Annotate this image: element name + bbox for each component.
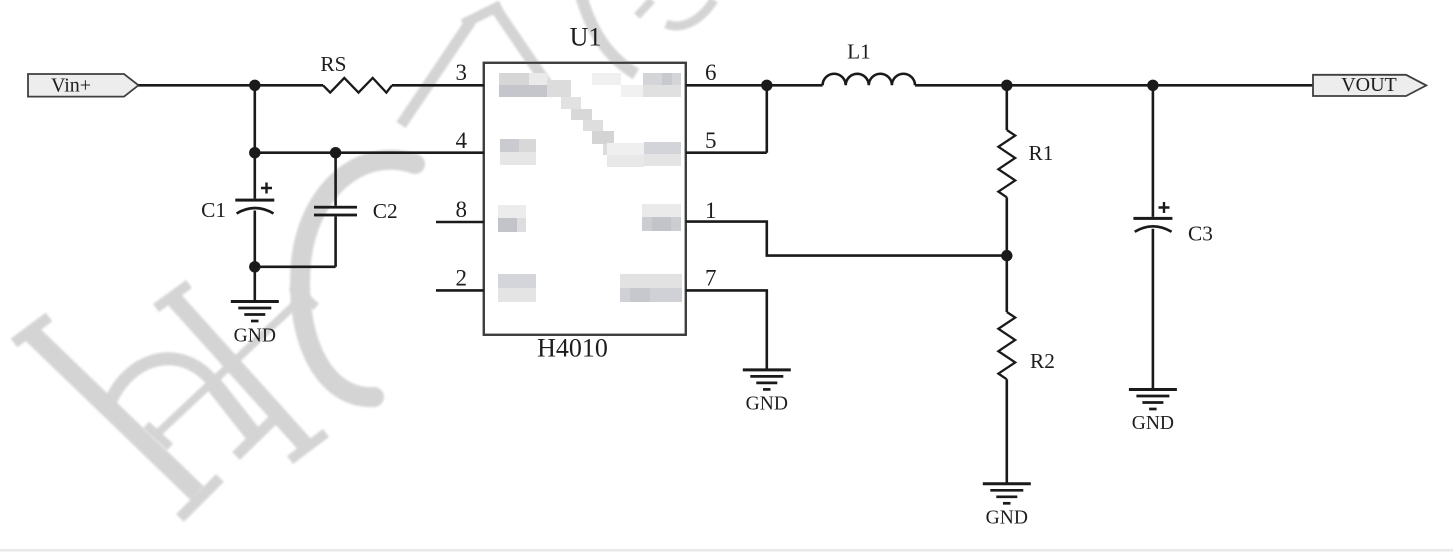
op-amp U1 border redraw (484, 63, 686, 335)
svg-text:GND: GND (986, 507, 1028, 528)
svg-text:U1: U1 (570, 23, 602, 52)
wire RS to pin3 (392, 84, 484, 87)
pin 1 wire (686, 222, 1007, 256)
U1 pin 1 name blur (642, 204, 681, 231)
svg-text:5: 5 (705, 128, 717, 153)
svg-text:C3: C3 (1188, 222, 1213, 246)
svg-text:C1: C1 (201, 198, 226, 222)
svg-text:3: 3 (456, 60, 468, 85)
U1 pin 2 name blur (498, 274, 536, 302)
svg-text:RS: RS (320, 52, 346, 76)
wire Vin to RS (139, 84, 324, 87)
U1 pin 7 name blur (620, 274, 682, 302)
node junction R1 top (1001, 80, 1012, 91)
U1 pin 4 name blur (500, 139, 536, 165)
node junction Vin/C1 (249, 80, 260, 91)
wire C1 to ground (254, 267, 257, 302)
svg-text:8: 8 (456, 197, 468, 222)
pin 8 stub (436, 221, 484, 224)
svg-text:6: 6 (705, 60, 717, 85)
svg-text:VOUT: VOUT (1341, 74, 1397, 96)
svg-text:R1: R1 (1029, 141, 1054, 165)
node junction R1/R2 (1001, 250, 1012, 261)
pin 5 wire (686, 151, 767, 154)
svg-text:GND: GND (1132, 413, 1174, 434)
U1 pin 8 name blur (498, 205, 526, 232)
resistor RS (323, 78, 392, 93)
svg-text:4: 4 (456, 128, 468, 153)
U1 pin 5 name blur (607, 142, 681, 167)
capacitor C2 (314, 153, 398, 267)
svg-text:L1: L1 (847, 40, 871, 64)
wire L1 to R1 junction (915, 84, 1007, 87)
svg-text:7: 7 (705, 266, 717, 291)
svg-text:GND: GND (746, 394, 788, 415)
watermark stroke B fork (463, 5, 554, 94)
watermark stroke A (401, 21, 471, 125)
svg-text:GND: GND (234, 326, 276, 347)
wire C1-C2 bottom (255, 265, 336, 268)
node junction C3 top (1147, 80, 1158, 91)
pin 2 stub (436, 289, 484, 292)
watermark stroke C curve (580, 0, 636, 74)
U1 pin 6 name blur (643, 73, 681, 97)
svg-text:R2: R2 (1030, 349, 1055, 373)
ground GND4 (1129, 390, 1177, 435)
pin 6 wire (686, 84, 767, 87)
node junction C1 bottom (249, 261, 260, 272)
wire vertical Vin junction down (254, 85, 257, 152)
wire to C3 junction (1007, 84, 1153, 87)
bottom page edge line (0, 549, 1453, 552)
capacitor C3 (1133, 85, 1212, 389)
pin 7 wire (686, 290, 767, 370)
svg-text:Vin+: Vin+ (51, 75, 91, 97)
node junction C2 top (330, 147, 341, 158)
resistor R2 (998, 256, 1054, 484)
ground GND2 (743, 370, 791, 415)
resistor R1 (998, 85, 1053, 255)
node junction pin6 (761, 80, 772, 91)
inductor L1 (823, 74, 915, 86)
ground GND3 (983, 484, 1031, 529)
U1 diagonal blur (547, 73, 650, 155)
wire pin6 to L1 (767, 84, 823, 87)
svg-text:2: 2 (456, 266, 468, 291)
ground GND1 (231, 302, 279, 347)
op-amp U1 body H4010 (484, 63, 686, 335)
watermark stroke D bits (637, 0, 714, 26)
node junction C1 top (249, 147, 260, 158)
net tag Vin+ (28, 74, 139, 97)
svg-text:H4010: H4010 (537, 334, 608, 363)
U1 pin 3 name blur (499, 73, 548, 97)
wire to pin4 (255, 151, 484, 154)
watermark letter c (300, 160, 415, 397)
svg-text:1: 1 (705, 198, 717, 223)
wire to VOUT (1153, 84, 1313, 87)
watermark letter h (14, 317, 274, 518)
net tag VOUT (1313, 74, 1426, 96)
watermark letter x (146, 284, 326, 460)
svg-text:C2: C2 (373, 199, 398, 223)
capacitor C1 (201, 153, 274, 267)
